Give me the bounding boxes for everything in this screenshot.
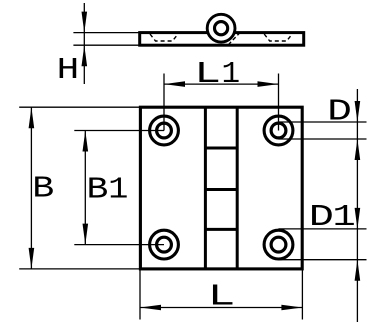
svg-text:H: H	[57, 53, 80, 88]
svg-text:1: 1	[108, 171, 128, 207]
svg-text:L: L	[208, 278, 236, 313]
svg-text:L: L	[194, 56, 221, 91]
svg-text:D: D	[327, 94, 352, 129]
svg-text:1: 1	[333, 199, 356, 234]
svg-text:D: D	[309, 200, 334, 235]
svg-text:B: B	[32, 172, 54, 207]
svg-text:1: 1	[222, 57, 241, 92]
svg-text:B: B	[87, 173, 109, 208]
